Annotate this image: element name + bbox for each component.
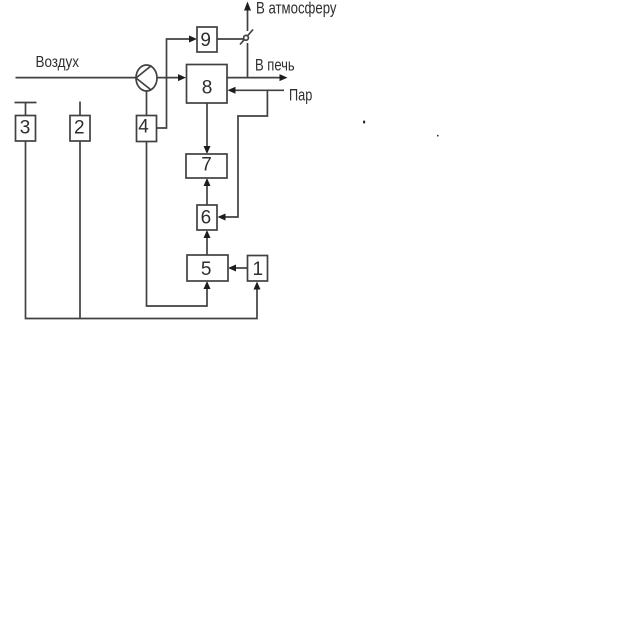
stray mark 2 (437, 135, 439, 137)
wire steam (Пар) line into block 8 (235, 89, 285, 91)
svg-text:В печь: В печь (255, 56, 295, 75)
wire block 9 output to valve (217, 38, 244, 40)
svg-text:3: 3 (20, 117, 31, 138)
svg-text:2: 2 (74, 117, 85, 138)
arrowhead into block 7 bottom (204, 178, 211, 186)
valve body on atmosphere line (244, 35, 249, 40)
wire branch up to atmosphere below valve (247, 43, 249, 78)
svg-text:Пар: Пар (289, 85, 312, 104)
valve actuator slash (240, 30, 253, 45)
wire pump outlet to block 8 (157, 77, 180, 79)
block 2 (70, 116, 90, 142)
wire block 2 bottom down to junction (79, 141, 81, 319)
wire air supply line (16, 77, 137, 79)
block 1 (248, 256, 268, 282)
arrowhead into block 1 bottom (254, 282, 261, 290)
block 9 (197, 27, 217, 52)
svg-text:9: 9 (200, 30, 211, 51)
arrowhead steam branch into block 6 right (218, 214, 226, 221)
wire block 2 sensor stub (79, 102, 81, 116)
pump fan vane upper (136, 66, 152, 79)
svg-text:6: 6 (201, 208, 212, 229)
wire steam branch down, left, down, into block 6 (225, 90, 268, 217)
wire block 5 top to block 6 bottom (206, 237, 208, 255)
wire block 6 top to block 7 bottom (206, 185, 208, 205)
svg-text:5: 5 (201, 259, 212, 280)
arrowhead to furnace (right) (280, 74, 288, 81)
wire block 4 right side up to block 9 (157, 39, 191, 128)
wire pump bottom to block 4 (146, 91, 148, 116)
wire block 1 to block 5 (236, 267, 248, 269)
wire block 3 sensor stub (25, 103, 27, 116)
block 8 (187, 65, 228, 104)
wire block 8 bottom to block 7 (206, 103, 208, 147)
block 6 (197, 205, 217, 230)
arrowhead into block 7 top (204, 146, 211, 154)
stray mark 1 (363, 121, 365, 124)
arrowhead steam into block 8 right (228, 87, 236, 94)
wire block 3 sensor bar (15, 102, 37, 104)
arrowhead into block 6 bottom (204, 230, 211, 238)
arrowhead into block 5 right (228, 265, 236, 272)
arrowhead into block 9 left (189, 36, 197, 43)
svg-text:8: 8 (202, 77, 213, 98)
pump fan vane lower (136, 78, 151, 90)
svg-text:Воздух: Воздух (36, 54, 80, 71)
arrowhead into block 8 left (178, 74, 186, 81)
svg-text:7: 7 (201, 154, 212, 175)
wire block 8 output to furnace (227, 77, 280, 79)
svg-text:В атмосферу: В атмосферу (256, 0, 337, 18)
arrowhead to atmosphere (top) (244, 2, 251, 11)
wire atmosphere line above valve (247, 9, 249, 31)
block 5 (187, 255, 228, 281)
block 7 (186, 154, 227, 178)
blower/pump P1 (136, 65, 157, 91)
wire block 4 bottom down, right, up into block 5 (147, 142, 208, 307)
block 4 (137, 116, 157, 142)
wire block 3 bottom down, right, up into block 1 (26, 141, 258, 319)
arrowhead into block 5 bottom (204, 281, 211, 289)
svg-text:4: 4 (138, 117, 149, 138)
block 3 (16, 116, 36, 142)
svg-text:1: 1 (253, 259, 264, 280)
